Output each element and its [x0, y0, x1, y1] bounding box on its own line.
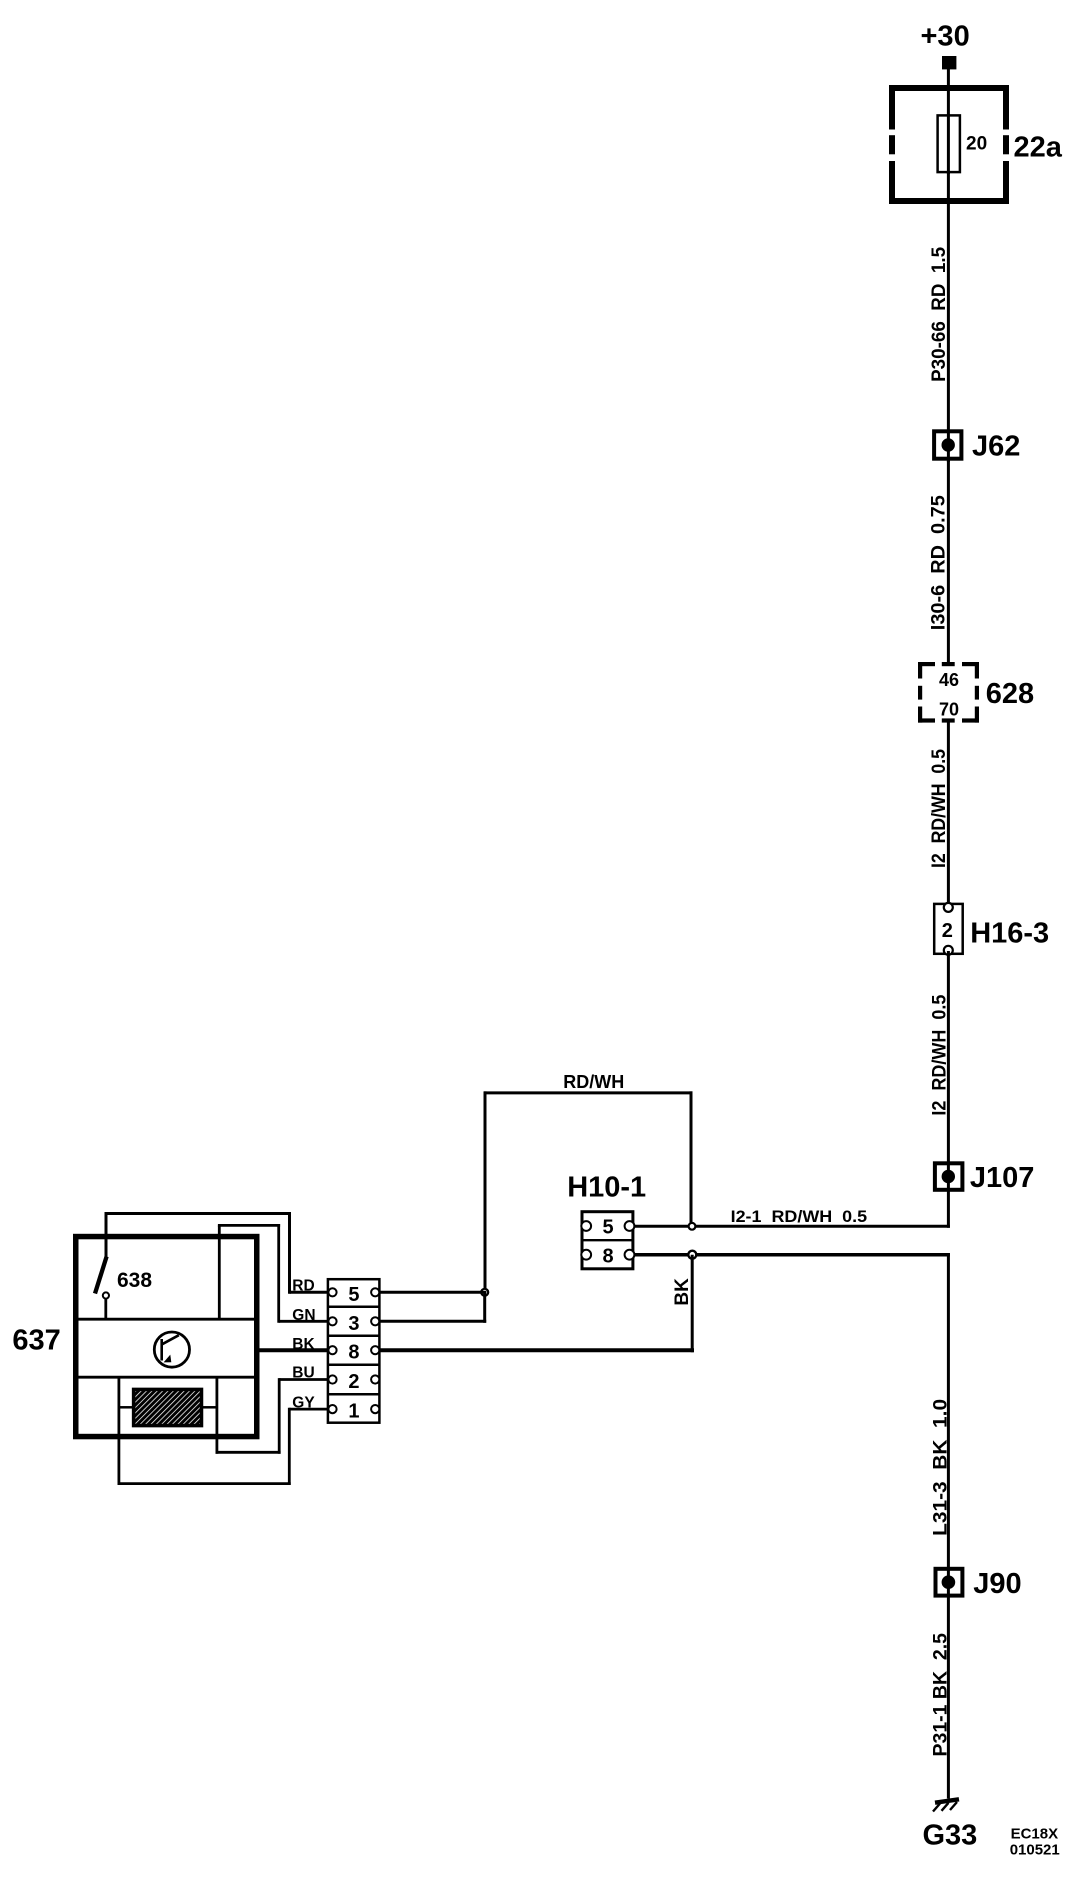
- svg-text:BK: BK: [292, 1336, 315, 1353]
- wire J107 down to pin5 feed corner: [947, 1177, 950, 1228]
- wire BU run: [216, 1377, 330, 1454]
- svg-text:H16-3: H16-3: [970, 918, 1049, 950]
- wire GN run: [218, 1224, 329, 1323]
- svg-text:RD: RD: [292, 1278, 314, 1295]
- junction J90: [936, 1569, 963, 1596]
- svg-text:I2 RD/WH 0.5: I2 RD/WH 0.5: [929, 994, 950, 1115]
- wire junction drop to pin3 run: [483, 1292, 486, 1323]
- svg-text:010521: 010521: [1010, 1842, 1060, 1859]
- svg-text:RD/WH: RD/WH: [563, 1072, 624, 1092]
- svg-text:22a: 22a: [1014, 131, 1063, 163]
- svg-text:5: 5: [348, 1284, 359, 1306]
- component 637 box: [75, 1237, 259, 1437]
- wire 637 pin3 to junction drop: [376, 1320, 486, 1323]
- wire BK horizontal to 637 connector pin8: [259, 1348, 329, 1352]
- svg-text:20: 20: [966, 134, 987, 155]
- svg-text:3: 3: [348, 1313, 359, 1335]
- svg-text:8: 8: [348, 1342, 359, 1364]
- wire J62 to 628 (I30-6 RD 0.75): [947, 460, 950, 664]
- junction node at 637 pin5/pin3 tie: [481, 1289, 488, 1296]
- svg-text:I2-1 RD/WH 0.5: I2-1 RD/WH 0.5: [731, 1207, 868, 1226]
- wire main ground drop to G33: [947, 1253, 950, 1799]
- svg-text:46: 46: [939, 670, 959, 690]
- svg-text:638: 638: [117, 1269, 152, 1292]
- wire H10-1 pin8 to ground corner (BK): [635, 1253, 950, 1257]
- fuse 20 element: [938, 114, 960, 174]
- svg-text:H10-1: H10-1: [567, 1172, 646, 1204]
- wire GY run: [118, 1377, 330, 1485]
- connector block 637 pins: [327, 1279, 380, 1423]
- svg-text:8: 8: [603, 1246, 614, 1268]
- svg-text:628: 628: [986, 678, 1034, 710]
- wire +30 to fuse 22a: [947, 69, 950, 116]
- svg-text:I2 RD/WH 0.5: I2 RD/WH 0.5: [929, 749, 950, 868]
- wire fuse 22a to J62 (P30-66 RD 1.5): [947, 172, 950, 432]
- wire 628 to H16-3 (I2 RD/WH 0.5): [947, 721, 950, 906]
- wire RD top run: [105, 1212, 330, 1294]
- wire RD/WH loop horizontal: [484, 1091, 693, 1094]
- switch 638: [95, 1257, 109, 1320]
- svg-text:1: 1: [348, 1401, 359, 1423]
- fuse holder 22a box: [888, 88, 1011, 201]
- svg-text:J107: J107: [970, 1162, 1035, 1194]
- svg-text:P30-66 RD 1.5: P30-66 RD 1.5: [929, 246, 950, 381]
- wire BK vertical from pin8 junction: [691, 1255, 694, 1353]
- svg-text:I30-6 RD 0.75: I30-6 RD 0.75: [929, 495, 950, 630]
- svg-text:P31-1 BK 2.5: P31-1 BK 2.5: [931, 1633, 952, 1757]
- svg-text:2: 2: [348, 1371, 359, 1393]
- connector H16-3: [934, 903, 963, 955]
- svg-text:L31-3 BK 1.0: L31-3 BK 1.0: [931, 1399, 952, 1536]
- connector 628 dashed box: [918, 662, 979, 723]
- wire RD/WH right vertical: [690, 1091, 693, 1226]
- svg-text:5: 5: [603, 1217, 614, 1239]
- junction node on pin5 wire: [689, 1223, 696, 1230]
- ground G33 symbol: [933, 1799, 959, 1811]
- svg-text:J90: J90: [973, 1568, 1021, 1600]
- svg-text:2: 2: [942, 920, 953, 942]
- wire RD/WH left vertical: [484, 1091, 487, 1292]
- node +30 terminal square: [942, 56, 956, 69]
- pump motor symbol: [154, 1332, 189, 1367]
- svg-text:BU: BU: [292, 1364, 314, 1381]
- svg-text:J62: J62: [972, 431, 1020, 463]
- connector H10-1: [581, 1212, 634, 1269]
- junction node on pin8 wire: [688, 1251, 696, 1259]
- svg-text:637: 637: [12, 1325, 60, 1357]
- junction J107: [935, 1163, 963, 1190]
- junction J62: [934, 430, 961, 462]
- svg-text:+30: +30: [921, 20, 970, 52]
- wire 637 pin5 to junction: [376, 1291, 486, 1294]
- svg-text:GN: GN: [292, 1307, 315, 1324]
- heater resistor hatched element: [119, 1389, 217, 1425]
- svg-text:70: 70: [939, 699, 959, 719]
- svg-text:BK: BK: [672, 1278, 693, 1306]
- wire H10-1 pin5 to J107 (I2-1 RD/WH 0.5): [635, 1225, 950, 1228]
- svg-text:EC18X: EC18X: [1011, 1825, 1059, 1842]
- wire BK horizontal pin8 right run: [376, 1348, 694, 1352]
- wire RD feed down to switch 638: [105, 1214, 108, 1259]
- svg-text:G33: G33: [923, 1819, 978, 1851]
- svg-text:GY: GY: [292, 1394, 315, 1411]
- wire H16-3 to J107 (I2 RD/WH 0.5): [947, 951, 950, 1177]
